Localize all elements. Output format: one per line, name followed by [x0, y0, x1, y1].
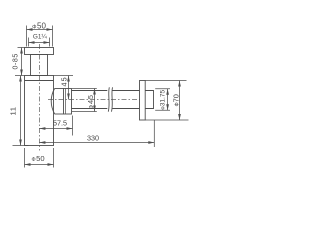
body collar line	[25, 80, 54, 82]
dim Φ45: extension lines	[72, 89, 97, 112]
dim Φ31.75: extension lines	[155, 89, 170, 110]
pipe stub behind flange	[145, 91, 153, 109]
arrow Φ50 top right	[47, 28, 53, 31]
svg-text:Φ31.75: Φ31.75	[160, 90, 167, 110]
arrow Φ70 down	[178, 114, 181, 120]
arrow Φ50 bottom right	[48, 163, 54, 166]
arrow 330 right	[148, 141, 154, 144]
arrow Φ45 down	[93, 106, 96, 112]
dim G1¼: dimension line	[29, 42, 50, 44]
dim 45: extension of body top to right	[54, 75, 74, 77]
dim G1¼: extension lines	[29, 38, 50, 47]
svg-text:Φ45: Φ45	[86, 94, 95, 109]
arrow Φ50 bottom left	[25, 163, 31, 166]
wall flange	[140, 81, 146, 121]
top cap (flanged nut)	[25, 48, 54, 55]
svg-text:Φ70: Φ70	[171, 94, 180, 106]
dim Φ50 bottom: extension lines	[25, 148, 54, 168]
arrow Φ70 up	[178, 81, 181, 87]
arrow Φ31.75 up	[166, 89, 169, 95]
neck (threaded tailpiece G1 1/4)	[31, 55, 48, 76]
dim Φ45: dimension line	[94, 89, 96, 112]
dim 330: right extension line	[153, 120, 155, 147]
dim Φ50 top: dimension line	[27, 29, 53, 31]
vertical centerline of trap body	[38, 44, 40, 151]
outlet boss bottom edge	[55, 113, 64, 115]
svg-text:11: 11	[9, 106, 18, 115]
trap body cylinder	[25, 76, 54, 146]
svg-text:57.5: 57.5	[53, 119, 67, 128]
outlet nut chamfer line	[65, 89, 67, 115]
arrow G1¼ right	[44, 41, 50, 44]
arrow 11 up	[19, 76, 22, 82]
pipe top line	[72, 90, 140, 92]
arrow G1¼ left	[29, 41, 35, 44]
outlet boss arc on body	[51, 89, 54, 115]
arrow 45 up	[67, 76, 70, 82]
dim 0-85: bottom extension tick	[15, 75, 25, 77]
dim Φ50 top: extension lines	[27, 26, 53, 47]
dim 330: dimension line	[39, 142, 154, 144]
arrow Φ45 up	[93, 89, 96, 95]
outlet boss top edge	[55, 88, 64, 90]
arrow 45 down	[67, 94, 70, 100]
svg-text:Φ50: Φ50	[32, 22, 46, 31]
dim Φ31.75: dimension line	[167, 89, 169, 110]
dim 57.5: dimension line	[39, 128, 72, 130]
dim Φ50 bottom: dimension line	[25, 164, 54, 166]
dim 0-85: dimension line	[21, 48, 23, 76]
svg-text:G1¼: G1¼	[33, 34, 48, 41]
dim 57.5: right extension line	[72, 116, 74, 136]
svg-text:330: 330	[87, 133, 99, 142]
dim 0-85: top extension tick	[18, 47, 25, 49]
arrow 330 left	[39, 141, 45, 144]
svg-text:45: 45	[59, 76, 68, 86]
arrow 0-85 up	[20, 48, 23, 54]
svg-text:Φ50: Φ50	[31, 154, 44, 163]
svg-text:0-85: 0-85	[12, 53, 19, 69]
pipe break squiggle right	[112, 87, 113, 111]
arrow 57.5 left	[39, 127, 45, 130]
outlet nut	[64, 89, 72, 115]
arrow Φ31.75 down	[166, 104, 169, 110]
dim 11: dimension line	[20, 76, 22, 146]
dim Φ70: extension lines	[145, 81, 188, 121]
dim 11: bottom extension tick	[13, 145, 29, 147]
arrow 11 down	[19, 140, 22, 146]
arrow 57.5 right	[67, 127, 73, 130]
dim Φ70: dimension line	[179, 81, 181, 121]
arrow Φ50 top left	[27, 28, 33, 31]
horizontal centerline of outlet pipe	[48, 99, 140, 101]
dim 45: dimension line	[68, 76, 70, 100]
arrow 0-85 down	[20, 70, 23, 76]
pipe bottom line	[72, 108, 140, 110]
pipe break squiggle left	[108, 87, 109, 111]
